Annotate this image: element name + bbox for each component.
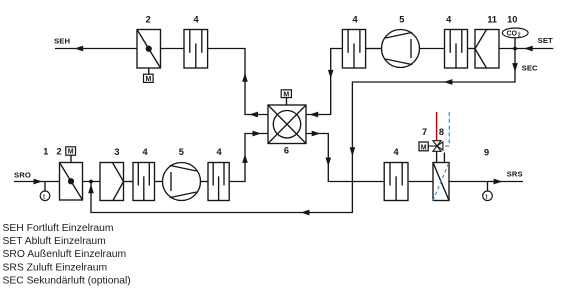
filter 4 (top return row, right) — [445, 30, 468, 69]
pipe coil return — [443, 153, 445, 163]
filter 4 (top return row, left) — [342, 30, 365, 69]
svg-text:CO: CO — [507, 31, 518, 38]
svg-text:1: 1 — [43, 146, 48, 156]
filter 4 (supply outlet row) — [384, 163, 408, 201]
temperature sensor 9 — [483, 182, 493, 201]
damper 2 (bottom, motorized) — [60, 147, 83, 200]
svg-text:10: 10 — [507, 15, 517, 25]
svg-text:M: M — [421, 144, 427, 151]
svg-text:9: 9 — [484, 147, 489, 157]
wire filter to unit 11 — [468, 48, 476, 50]
svg-text:3: 3 — [114, 147, 119, 157]
fan 5 (top return row) — [382, 30, 420, 68]
volume flow controller 11 — [475, 30, 499, 69]
svg-text:2: 2 — [146, 15, 151, 25]
fan 5 (bottom supply row) — [163, 163, 201, 201]
svg-text:SEC Sekundärluft (optional): SEC Sekundärluft (optional) — [3, 276, 131, 287]
svg-text:4: 4 — [352, 15, 358, 25]
svg-text:11: 11 — [487, 15, 497, 25]
wire heat-exchanger bottom-left port from supply row — [229, 134, 268, 182]
svg-text:8: 8 — [439, 127, 444, 137]
arrow flow left on SEC bottom run — [301, 210, 310, 216]
arrow flow up into SRO junction — [88, 184, 94, 193]
wire heat-exchanger top-right port to top return row — [306, 49, 342, 115]
pipe hot water supply (red) — [436, 112, 438, 141]
svg-text:4: 4 — [142, 147, 148, 157]
svg-text:SRO Außenluft Einzelraum: SRO Außenluft Einzelraum — [3, 249, 127, 260]
wire filter to heater coil — [408, 181, 433, 183]
arrow flow left on SEH line — [75, 46, 84, 52]
CO2 sensor 10 — [502, 28, 528, 48]
preheater 3 — [100, 163, 124, 201]
svg-text:7: 7 — [422, 127, 427, 137]
wire damper2 to filter — [161, 48, 185, 50]
arrow flow right on SRS line — [494, 179, 503, 185]
arrow flow right on SRO line — [34, 179, 43, 185]
svg-text:M: M — [145, 76, 151, 83]
filter 4 (bottom supply row, right) — [208, 163, 229, 201]
arrow flow left into exchanger — [310, 112, 319, 118]
pipe coil to valve — [436, 151, 438, 162]
svg-text:SEC: SEC — [522, 63, 538, 72]
wire preheater to filter — [124, 181, 134, 183]
svg-text:M: M — [68, 149, 74, 156]
wire fan to filter — [420, 48, 445, 50]
arrow flow up — [242, 73, 248, 82]
svg-text:SET: SET — [538, 36, 553, 45]
svg-text:4: 4 — [446, 15, 452, 25]
svg-text:SRS Zuluft Einzelraum: SRS Zuluft Einzelraum — [3, 262, 108, 273]
arrow flow left on SEC horizontal — [444, 79, 453, 85]
svg-text:4: 4 — [393, 147, 399, 157]
wire filter to fan — [366, 48, 382, 50]
svg-text:SRO: SRO — [14, 171, 31, 180]
filter 4 (bottom supply row, left) — [133, 163, 155, 201]
temperature sensor 1 — [40, 182, 50, 201]
svg-text:2: 2 — [518, 33, 521, 39]
wire filter to fan — [155, 181, 163, 183]
arrow flow down — [326, 158, 332, 167]
arrow flow left into corner — [249, 112, 258, 118]
wire fan to filter — [201, 181, 209, 183]
arrow flow right into exchanger — [253, 131, 262, 137]
arrow flow up — [242, 154, 248, 163]
svg-text:t: t — [486, 192, 489, 201]
wire heat-exchanger bottom-right port to supply row — [306, 134, 384, 182]
pipe return optional (blue dashed) — [443, 112, 449, 146]
svg-text:4: 4 — [216, 147, 222, 157]
arrow flow down on SEC long drop — [350, 147, 356, 156]
rotary heat exchanger 6 — [268, 90, 306, 144]
valve 7 (3-way, motorized) — [419, 141, 443, 152]
svg-text:SET Abluft Einzelraum: SET Abluft Einzelraum — [3, 236, 106, 247]
svg-text:SRS: SRS — [507, 170, 523, 179]
svg-text:5: 5 — [399, 15, 404, 25]
wire filter to heat-exchanger top-left port — [208, 49, 268, 115]
wire damper to preheater — [83, 181, 101, 183]
wire SEC secondary air return — [91, 49, 515, 213]
wire unit 11 to SET junction — [499, 48, 553, 50]
wire SRS supply outlet — [449, 181, 523, 183]
wire SEH exhaust line — [55, 48, 137, 50]
junction SRO/SEC — [89, 180, 93, 184]
svg-text:4: 4 — [193, 15, 199, 25]
svg-text:SEH Fortluft Einzelraum: SEH Fortluft Einzelraum — [3, 223, 114, 234]
svg-text:6: 6 — [284, 146, 289, 156]
svg-text:SEH: SEH — [54, 36, 70, 45]
svg-text:t: t — [43, 192, 46, 201]
arrow flow right — [312, 131, 321, 137]
svg-text:M: M — [283, 91, 289, 98]
arrow flow down on SEC drop — [512, 63, 518, 72]
heater coil 8 — [433, 163, 449, 201]
junction SET/SEC — [513, 47, 517, 51]
filter 4 (top left) — [184, 30, 208, 69]
wire SRO outdoor air inlet — [14, 181, 60, 183]
svg-text:2: 2 — [56, 146, 61, 156]
damper 2 (top, motorized) — [137, 30, 161, 83]
svg-text:5: 5 — [179, 147, 184, 157]
arrow flow left on SET line — [524, 46, 533, 52]
arrow flow down — [328, 70, 334, 79]
